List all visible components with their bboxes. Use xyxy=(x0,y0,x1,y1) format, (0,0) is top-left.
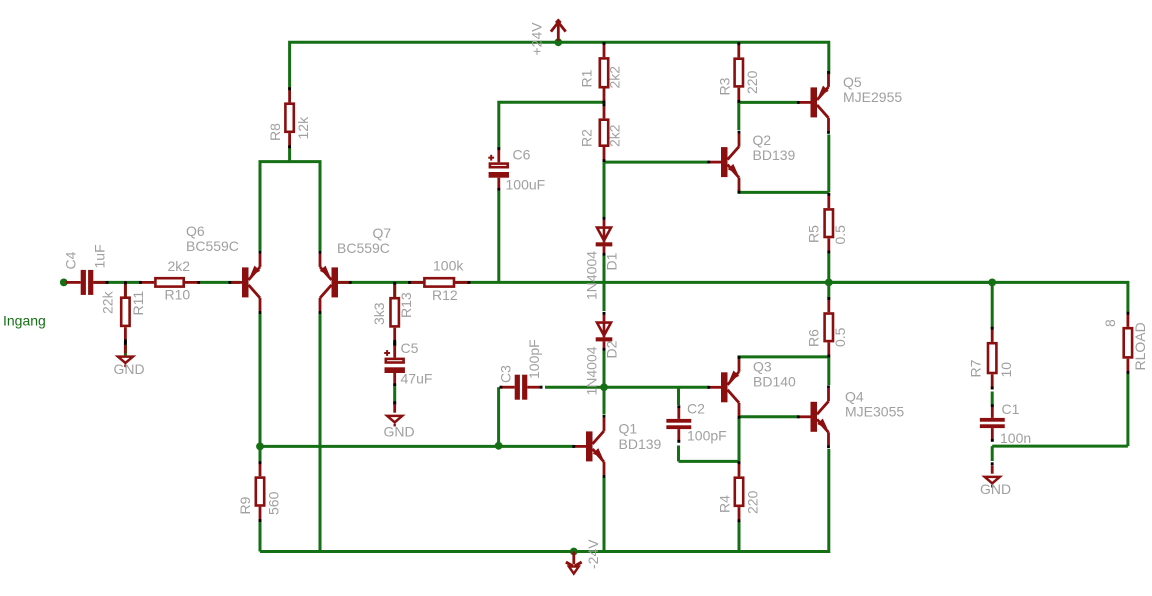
svg-text:100uF: 100uF xyxy=(506,177,546,193)
resistor R11 22k xyxy=(121,281,129,342)
svg-text:100pF: 100pF xyxy=(526,339,542,379)
svg-text:R1: R1 xyxy=(579,69,595,87)
wire R9 to bottom rail xyxy=(259,521,262,552)
label R3 name/value rotated xyxy=(717,70,761,95)
wire C2 top tap on Q3 base line xyxy=(677,387,680,405)
resistor R5 0.5 xyxy=(825,193,833,254)
svg-text:RLOAD: RLOAD xyxy=(1132,322,1148,370)
wire R3 junction to Q5 base xyxy=(739,101,799,104)
capacitor C2 100pF xyxy=(666,405,691,442)
svg-text:C3: C3 xyxy=(498,365,514,383)
svg-text:C4: C4 xyxy=(63,251,79,269)
svg-text:D1: D1 xyxy=(604,252,620,270)
svg-text:22k: 22k xyxy=(100,290,116,314)
capacitor C1 100n xyxy=(980,404,1005,441)
svg-text:R13: R13 xyxy=(398,292,414,318)
node B junction dot (D2 / C3 / Q1 / Q3) xyxy=(600,383,608,391)
ground symbol below C5 xyxy=(387,401,402,426)
capacitor C5 47uF polarized xyxy=(384,343,405,386)
label Q6 name/value xyxy=(186,223,239,254)
wire R10 to Q6 base xyxy=(200,281,240,284)
svg-text:GND: GND xyxy=(114,361,145,377)
wire node B to Q3 base xyxy=(604,386,709,389)
diode D1 1N4004 xyxy=(596,217,613,256)
wire node B down to Q1 collector xyxy=(603,387,606,414)
wire C6 bottom to mid rail xyxy=(497,191,500,283)
svg-text:Q3: Q3 xyxy=(753,359,772,375)
wire node A to R9 xyxy=(259,446,262,462)
svg-text:10: 10 xyxy=(998,362,1014,378)
label Q7 name/value xyxy=(337,225,391,256)
resistor RLOAD 8 xyxy=(1124,312,1132,374)
node C3 junction dot xyxy=(495,442,503,450)
svg-text:C1: C1 xyxy=(1002,401,1020,417)
wire RLOAD bottom to C1 junction xyxy=(1126,373,1129,446)
svg-text:1uF: 1uF xyxy=(92,244,108,268)
svg-text:R7: R7 xyxy=(968,359,984,377)
wire R2 bottom junction to Q2 base xyxy=(604,161,709,164)
capacitor C4 1uF input xyxy=(66,270,109,295)
resistor R3 220 xyxy=(735,42,743,103)
wire R13 to C5 xyxy=(393,342,396,347)
resistor R13 3k3 xyxy=(391,282,399,343)
svg-text:220: 220 xyxy=(745,490,761,514)
svg-text:R6: R6 xyxy=(806,329,822,347)
resistor R6 0.5 xyxy=(825,297,833,358)
svg-text:MJE2955: MJE2955 xyxy=(843,89,902,105)
wire R6 junction down to Q4 collector xyxy=(827,357,830,385)
svg-text:R5: R5 xyxy=(806,225,822,243)
ground symbol below C1 xyxy=(985,462,1000,487)
label R8 name/value rotated xyxy=(267,116,311,141)
transistor Q3 BD140 pnp xyxy=(707,356,739,419)
wire main mid rail from Q7 base to RLOAD corner xyxy=(337,282,1128,312)
label R9 name/value rotated xyxy=(237,491,282,515)
capacitor C6 100uF polarized xyxy=(488,147,509,190)
wire R13 tap stub xyxy=(393,282,396,297)
capacitor C3 100pF xyxy=(500,375,543,400)
transistor Q6 BC559C pnp xyxy=(228,251,260,314)
label R12 value/name xyxy=(432,258,464,304)
wire D1 to D2 crossing mid rail xyxy=(603,255,606,312)
wire R5 to output node xyxy=(827,253,830,282)
svg-text:100pF: 100pF xyxy=(687,428,727,444)
svg-text:R4: R4 xyxy=(717,495,733,513)
svg-text:220: 220 xyxy=(744,70,760,94)
label D2 value/name rotated xyxy=(584,340,620,395)
label Q2 name/value xyxy=(753,132,796,163)
label C4 name/value rotated xyxy=(63,244,108,269)
wire Q2 emitter to Q5 collector line xyxy=(739,189,829,192)
label Q1 name/value xyxy=(619,420,662,452)
svg-text:100k: 100k xyxy=(433,258,464,274)
svg-text:C2: C2 xyxy=(687,401,705,417)
wire R11 to GND xyxy=(124,341,127,357)
wire R7 tap down to R7 xyxy=(991,282,994,328)
wire Q5 collector down to R5 xyxy=(827,135,830,193)
wire C1 junction down to GND xyxy=(991,446,994,461)
svg-text:R10: R10 xyxy=(165,287,191,303)
label R1 name/value rotated xyxy=(579,66,623,89)
label D1 value/name rotated xyxy=(584,251,620,300)
svg-text:2k2: 2k2 xyxy=(168,258,191,274)
transistor Q7 BC559C pnp mirrored xyxy=(320,251,352,314)
label R4 name/value rotated xyxy=(717,490,761,514)
svg-text:Q6: Q6 xyxy=(186,223,205,239)
svg-text:R8: R8 xyxy=(267,123,283,141)
wire output node to R6 xyxy=(827,282,830,298)
resistor R12 100k xyxy=(408,278,471,286)
wire C5 to GND xyxy=(393,385,396,406)
svg-text:2k2: 2k2 xyxy=(607,66,623,89)
wire R6 bottom junction to Q3 emitter xyxy=(739,357,829,359)
svg-text:R12: R12 xyxy=(432,287,458,303)
resistor R8 12k xyxy=(285,87,293,148)
svg-text:R11: R11 xyxy=(130,291,146,316)
wire node B to C3 xyxy=(545,386,604,389)
label R13 value/name rotated xyxy=(371,292,414,325)
svg-text:1N4004: 1N4004 xyxy=(584,346,600,395)
svg-text:C5: C5 xyxy=(401,340,419,356)
node input terminal dot xyxy=(60,279,68,287)
node R7 tap junction dot xyxy=(988,279,996,287)
transistor Q2 BD139 npn xyxy=(707,131,739,194)
transistor Q5 MJE2955 pnp xyxy=(797,71,829,134)
wire Q7 collector down to -24V rail xyxy=(319,313,322,552)
svg-text:3k3: 3k3 xyxy=(371,302,387,325)
wire R7 to C1 xyxy=(991,392,994,406)
wire R11 tap stub xyxy=(124,282,127,297)
label R10 value/name xyxy=(165,258,191,303)
resistor R2 2k2 xyxy=(600,103,608,162)
svg-text:0.5: 0.5 xyxy=(832,327,848,347)
svg-text:D2: D2 xyxy=(604,340,620,358)
wire top +24V rail with drops to R8 and Q5 emitter xyxy=(290,42,829,89)
ground symbol below R11 xyxy=(118,342,133,367)
wire Q6/Q7 emitter tail rail to R8 xyxy=(260,162,320,251)
wire C1 bottom junction to RLOAD bottom xyxy=(992,445,1128,448)
svg-text:Q7: Q7 xyxy=(373,225,392,241)
svg-text:100n: 100n xyxy=(1000,430,1031,446)
svg-text:GND: GND xyxy=(980,481,1011,497)
label C1 name/value xyxy=(1000,401,1031,446)
svg-text:MJE3055: MJE3055 xyxy=(845,403,904,419)
svg-text:R3: R3 xyxy=(717,77,733,95)
svg-text:560: 560 xyxy=(266,491,282,515)
svg-text:47uF: 47uF xyxy=(401,371,433,387)
label R7 name/value rotated xyxy=(968,359,1015,377)
resistor R7 10 xyxy=(988,327,996,390)
svg-text:R9: R9 xyxy=(237,496,253,514)
svg-text:Q4: Q4 xyxy=(845,389,864,405)
wire Q1 emitter to bottom rail xyxy=(603,477,606,552)
wire R3 junction down to Q2 collector xyxy=(737,102,740,130)
svg-text:Q5: Q5 xyxy=(843,74,862,90)
label R2 name/value rotated xyxy=(579,124,623,147)
wire R4 to bottom rail xyxy=(738,521,741,552)
label R5 name/value rotated xyxy=(806,225,849,245)
svg-text:GND: GND xyxy=(384,424,415,440)
wire C3 left corner down to node A wire xyxy=(497,387,500,446)
svg-text:12k: 12k xyxy=(295,116,311,140)
diode D2 1N4004 xyxy=(596,312,613,351)
wire Q3 collector down to R4 and C2 junction xyxy=(738,417,741,462)
wire Q6 collector down to node A xyxy=(259,313,262,446)
svg-text:Q2: Q2 xyxy=(753,132,772,148)
wire R8 bottom to tail rail xyxy=(288,147,291,162)
wire C2 bottom to R4 junction xyxy=(679,460,740,463)
node A junction dot (Q6 collector / R9) xyxy=(256,443,264,451)
wire node A horizontal to Q1 base xyxy=(260,445,574,448)
label C6 name/value xyxy=(506,147,546,193)
transistor Q4 MJE3055 npn xyxy=(797,385,829,448)
label Q4 name/value xyxy=(845,389,904,420)
wire C6 top to R1/R2 junction xyxy=(499,102,604,148)
svg-text:0.5: 0.5 xyxy=(832,225,848,245)
label R6 name/value rotated xyxy=(806,327,849,347)
label C3 name/value rotated xyxy=(498,339,543,383)
resistor R1 2k2 xyxy=(600,42,608,104)
svg-text:Ingang: Ingang xyxy=(3,313,46,329)
resistor R10 2k2 xyxy=(139,278,200,286)
node output junction dot (R5/R6) xyxy=(825,279,833,287)
wire output rail to R7 tap xyxy=(829,281,992,284)
wire C2 bottom down xyxy=(677,446,680,462)
resistor R4 220 xyxy=(735,461,743,522)
svg-text:C6: C6 xyxy=(513,147,531,163)
label RLOAD value/name rotated xyxy=(1102,319,1148,371)
wire bottom -24V rail with riser to Q4 emitter xyxy=(260,449,829,552)
svg-text:1N4004: 1N4004 xyxy=(584,251,600,300)
svg-text:BC559C: BC559C xyxy=(186,238,239,254)
label R11 value/name rotated xyxy=(100,290,147,315)
supply +24V arrow symbol xyxy=(551,18,566,46)
svg-text:-24V: -24V xyxy=(585,539,601,569)
wire Q3 collector to Q4 base xyxy=(739,415,799,418)
svg-text:BD140: BD140 xyxy=(753,373,796,389)
svg-text:Q1: Q1 xyxy=(619,420,638,436)
wire R2 junction down to D1 xyxy=(603,162,606,219)
svg-text:BC559C: BC559C xyxy=(337,240,390,256)
svg-text:R2: R2 xyxy=(579,129,595,147)
svg-text:8: 8 xyxy=(1102,319,1118,327)
label Q3 name/value xyxy=(753,359,796,390)
wire D2 to node B xyxy=(603,348,606,387)
supply -24V arrow symbol xyxy=(566,548,582,574)
svg-text:2k2: 2k2 xyxy=(607,124,623,147)
label C5 name/value xyxy=(401,340,433,387)
svg-text:+24V: +24V xyxy=(529,22,545,56)
label Q5 name/value xyxy=(843,74,902,105)
resistor R9 560 xyxy=(256,461,264,522)
svg-text:BD139: BD139 xyxy=(619,436,662,452)
wire input node to R10 xyxy=(93,281,141,284)
label C2 name/value xyxy=(687,401,727,444)
svg-text:BD139: BD139 xyxy=(753,147,796,163)
transistor Q1 BD139 npn xyxy=(572,415,604,478)
